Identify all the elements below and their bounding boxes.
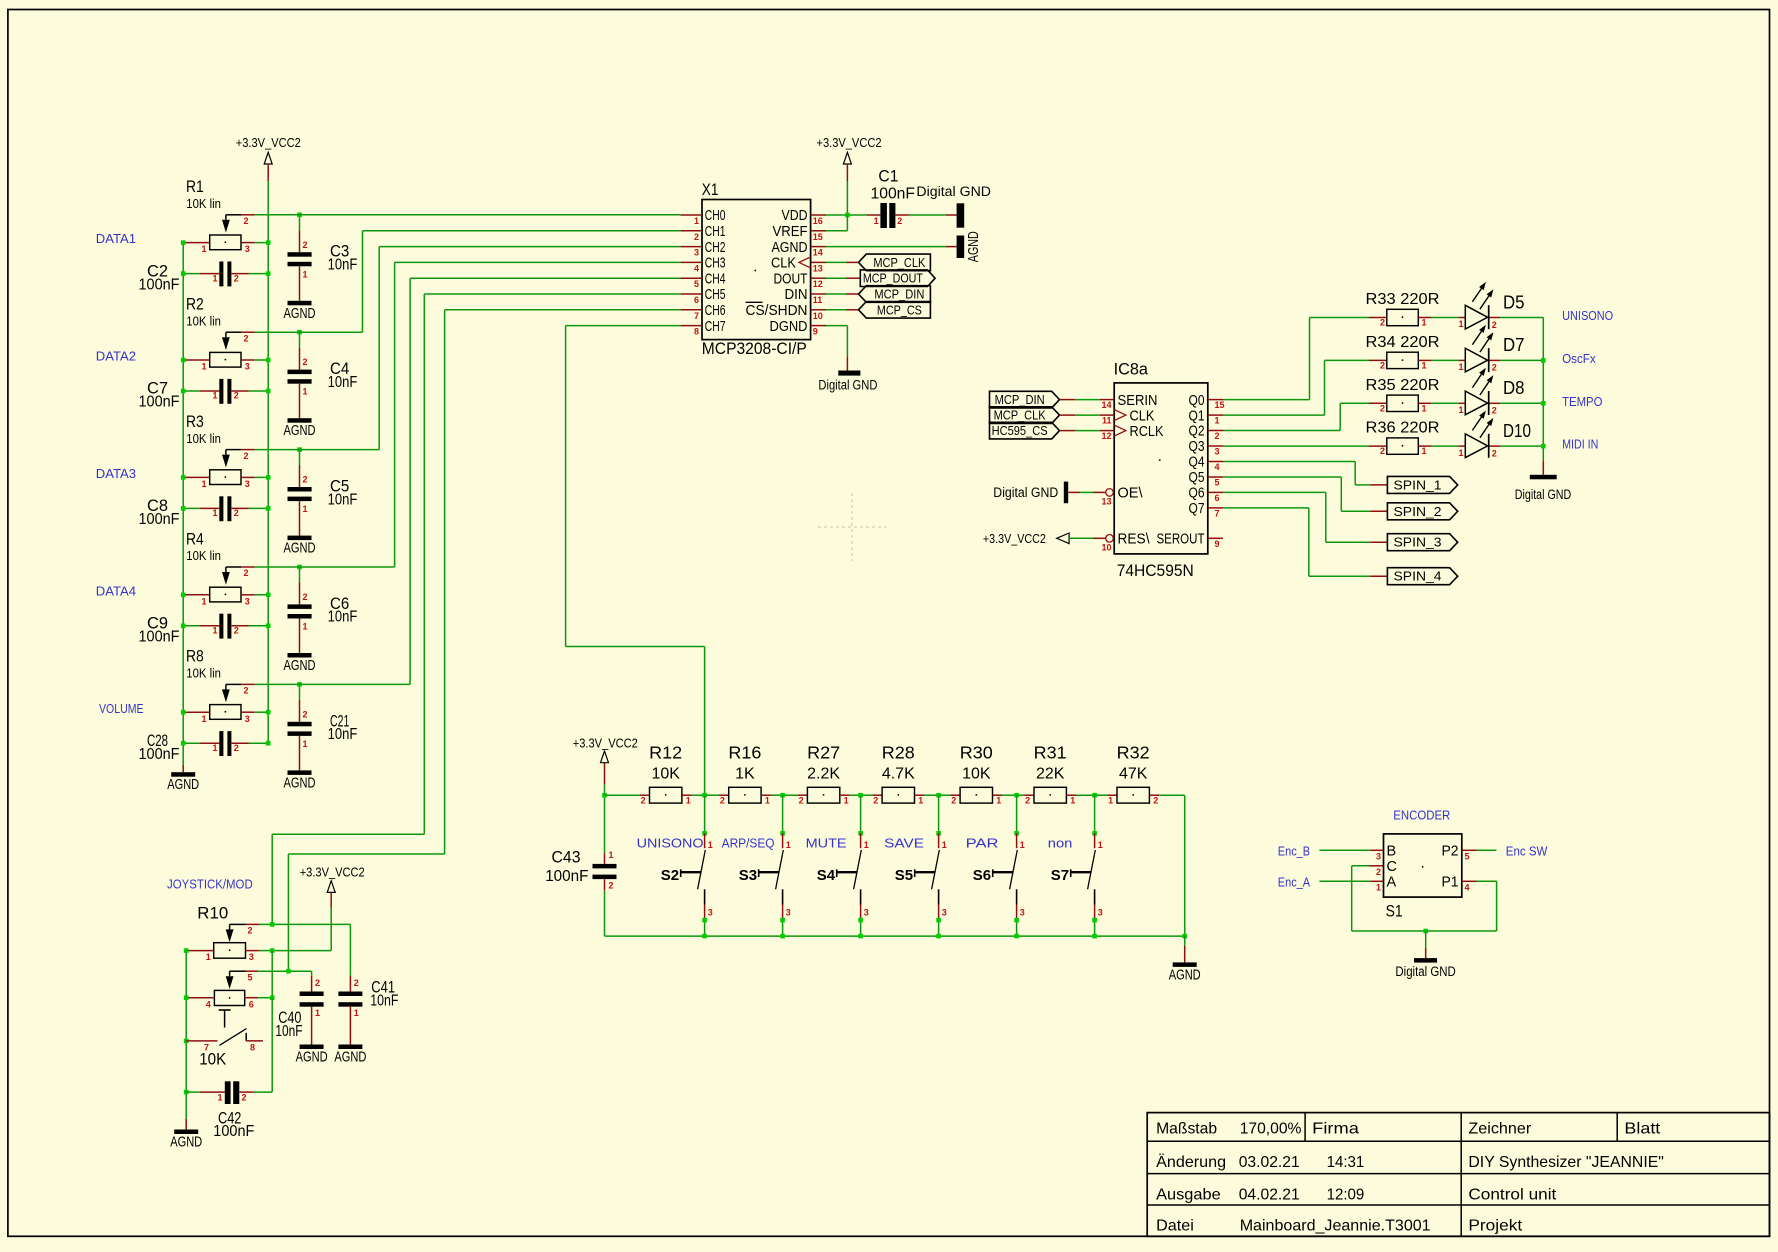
svg-text:MIDI IN: MIDI IN (1562, 437, 1598, 452)
svg-text:1: 1 (1098, 840, 1103, 850)
svg-text:2: 2 (303, 240, 308, 250)
svg-text:R8: R8 (186, 647, 204, 666)
svg-text:RCLK: RCLK (1130, 424, 1164, 440)
capacitor C8 100nF (183, 507, 200, 509)
svg-text:Zeichner: Zeichner (1468, 1121, 1531, 1138)
LED D7 (1432, 359, 1459, 361)
svg-text:MCP_CS: MCP_CS (877, 303, 922, 317)
svg-text:+3.3V_VCC2: +3.3V_VCC2 (817, 135, 882, 150)
capacitor C4 10nF (299, 332, 301, 348)
svg-text:2: 2 (303, 357, 308, 367)
svg-text:Control unit: Control unit (1468, 1187, 1556, 1204)
svg-text:3: 3 (786, 908, 791, 918)
svg-text:R28: R28 (882, 743, 915, 763)
svg-text:14: 14 (813, 248, 823, 258)
pin 8 CH7 (X1) (681, 325, 702, 327)
svg-text:SPIN_3: SPIN_3 (1394, 536, 1442, 550)
svg-text:1: 1 (354, 1008, 359, 1018)
capacitor C28 100nF (183, 742, 200, 744)
svg-text:2: 2 (234, 626, 239, 636)
wire vcc stem (pot column) (267, 164, 269, 181)
svg-text:Q4: Q4 (1189, 455, 1205, 471)
svg-text:Digital GND: Digital GND (993, 485, 1058, 500)
svg-text:3: 3 (245, 714, 250, 724)
pin 13 CLK (X1) (811, 261, 826, 263)
svg-text:1K: 1K (735, 766, 755, 783)
pin 6 Q6 (IC8a) (1208, 491, 1223, 493)
svg-text:R34 220R: R34 220R (1366, 334, 1440, 351)
svg-text:SPIN_1: SPIN_1 (1394, 478, 1442, 492)
wire pot R3 wiper stub (241, 449, 255, 451)
svg-text:1: 1 (1458, 405, 1463, 415)
svg-text:OE\: OE\ (1118, 486, 1144, 502)
svg-text:PAR: PAR (966, 836, 999, 851)
svg-text:2: 2 (799, 796, 804, 806)
svg-text:1: 1 (609, 850, 614, 860)
svg-text:A: A (1387, 875, 1397, 891)
svg-text:SPIN_2: SPIN_2 (1394, 505, 1442, 519)
wire ladder bottom rail (605, 935, 1185, 937)
svg-text:SEROUT: SEROUT (1157, 532, 1205, 548)
wire DATA4 net to ADC (255, 566, 395, 568)
svg-text:VDD: VDD (782, 208, 808, 224)
switch S5 SAVE (936, 793, 941, 798)
svg-text:Digital GND: Digital GND (818, 378, 877, 393)
svg-text:3: 3 (1376, 851, 1381, 861)
svg-text:1: 1 (1070, 796, 1075, 806)
svg-text:1: 1 (918, 796, 923, 806)
ground AGND (under C3) (288, 301, 312, 306)
svg-text:Q1: Q1 (1189, 408, 1205, 424)
svg-text:AGND: AGND (772, 240, 808, 256)
svg-text:5: 5 (248, 972, 253, 982)
power +3.3V_VCC2 (pot column) (264, 152, 272, 164)
svg-text:Digital GND: Digital GND (916, 184, 991, 199)
svg-text:2: 2 (873, 796, 878, 806)
svg-text:AGND: AGND (334, 1050, 366, 1066)
svg-text:2: 2 (303, 709, 308, 719)
svg-text:10K lin: 10K lin (186, 548, 221, 563)
svg-text:DIN: DIN (785, 287, 808, 303)
svg-text:8: 8 (250, 1043, 255, 1053)
svg-text:2: 2 (1025, 796, 1030, 806)
svg-text:1: 1 (212, 508, 217, 518)
svg-text:C1: C1 (878, 167, 898, 186)
pin 11 DIN (X1) (811, 293, 826, 295)
svg-text:2: 2 (242, 1093, 247, 1103)
svg-text:03.02.21: 03.02.21 (1239, 1154, 1300, 1171)
pin 12 RCLK (IC8a) (1100, 430, 1114, 432)
resistor R12 10K (605, 794, 640, 796)
pin 7 CH6 (X1) (681, 309, 702, 311)
wire VREF to VDD net (826, 230, 847, 232)
pin 4 P1 (S1) (1462, 880, 1477, 882)
svg-text:12:09: 12:09 (1327, 1187, 1365, 1204)
svg-text:AGND: AGND (284, 775, 316, 791)
svg-text:Q3: Q3 (1189, 439, 1205, 455)
svg-text:1: 1 (686, 796, 691, 806)
svg-text:X1: X1 (702, 180, 719, 199)
wire CH6 net (joystick pot 2 wiper) (445, 309, 681, 311)
svg-text:15: 15 (813, 232, 823, 242)
net flag MCP_DOUT (860, 270, 935, 287)
switch S4 MUTE (858, 793, 863, 798)
junction dots R4 block (181, 593, 186, 598)
svg-text:AGND: AGND (284, 423, 316, 439)
IC X1 MCP3208-CI/P (702, 200, 811, 340)
capacitor C40 10nF (311, 971, 313, 976)
resistor R35 220R (1369, 402, 1387, 404)
svg-text:11: 11 (813, 295, 823, 305)
svg-text:2: 2 (244, 451, 249, 461)
switch S7 non (1092, 793, 1097, 798)
svg-text:C43: C43 (552, 848, 581, 867)
svg-text:1: 1 (1215, 416, 1220, 426)
svg-text:2: 2 (354, 978, 359, 988)
wire VDD net (826, 214, 867, 216)
net flag MCP_CLK (859, 254, 931, 271)
svg-text:4: 4 (694, 263, 699, 273)
svg-text:3: 3 (245, 596, 250, 606)
pin 14 AGND (X1) (811, 246, 826, 248)
svg-text:3: 3 (694, 248, 699, 258)
svg-text:VOLUME: VOLUME (99, 701, 144, 716)
wire DOUT to MCP_DOUT (826, 277, 847, 279)
svg-text:R1: R1 (186, 177, 204, 196)
svg-text:3: 3 (1020, 908, 1025, 918)
wire pot R8 wiper stub (241, 683, 255, 685)
pin 9 SEROUT (IC8a) (1208, 537, 1223, 539)
svg-text:1: 1 (303, 269, 308, 279)
wire Q to SPIN_4 (1223, 507, 1309, 509)
svg-text:S1: S1 (1386, 902, 1403, 921)
pin 16 VDD (X1) (811, 214, 826, 216)
wire Enc_B (1319, 849, 1370, 851)
svg-text:CH1: CH1 (705, 224, 726, 240)
svg-text:+3.3V_VCC2: +3.3V_VCC2 (573, 736, 638, 751)
ground AGND (ladder) (1182, 934, 1187, 939)
ground Digital GND (LED rail) (1542, 460, 1544, 475)
svg-text:5: 5 (1465, 851, 1470, 861)
pin 5 P2 (S1) (1462, 849, 1477, 851)
svg-text:100nF: 100nF (139, 276, 180, 293)
LED D8 (1432, 402, 1459, 404)
svg-text:5: 5 (694, 279, 699, 289)
ground Digital GND (right of C1) (957, 203, 965, 227)
svg-text:47K: 47K (1119, 766, 1148, 783)
svg-text:2: 2 (303, 475, 308, 485)
svg-text:2: 2 (1492, 406, 1497, 416)
pin 4 Q4 (IC8a) (1208, 461, 1223, 463)
svg-text:100nF: 100nF (213, 1123, 254, 1140)
wire D8 cathode (1490, 402, 1501, 404)
wire D5 cathode (1490, 317, 1501, 319)
svg-text:1: 1 (303, 622, 308, 632)
pin 9 DGND (X1) (811, 325, 826, 327)
junction dot C6 top (297, 565, 302, 570)
wire Q to SPIN_1 (1223, 461, 1355, 463)
ground AGND (under C4) (288, 418, 312, 423)
junction dot C3 top (297, 213, 302, 218)
svg-text:AGND: AGND (284, 306, 316, 322)
svg-text:C: C (1387, 859, 1397, 875)
pin 2 Q2 (IC8a) (1208, 430, 1223, 432)
ground AGND (under C21) (288, 770, 312, 775)
svg-text:100nF: 100nF (139, 746, 180, 763)
wire Q3 to R36 (1223, 445, 1369, 447)
svg-text:100nF: 100nF (139, 629, 180, 646)
svg-text:1: 1 (864, 840, 869, 850)
pin 15 Q0 (IC8a) (1208, 399, 1223, 401)
svg-text:2: 2 (234, 273, 239, 283)
pin 15 VREF (X1) (811, 230, 826, 232)
pin 4 CH3 (X1) (681, 261, 702, 263)
svg-text:B: B (1387, 844, 1397, 860)
svg-text:Blatt: Blatt (1624, 1121, 1661, 1138)
svg-text:AGND: AGND (167, 777, 199, 793)
pin 6 CH5 (X1) (681, 293, 702, 295)
svg-text:10nF: 10nF (328, 726, 358, 743)
svg-text:ARP/SEQ: ARP/SEQ (722, 836, 775, 851)
svg-text:MUTE: MUTE (806, 836, 847, 851)
junction dots joystick rail (184, 948, 189, 953)
svg-text:Enc_A: Enc_A (1278, 874, 1311, 889)
svg-text:P2: P2 (1442, 844, 1459, 860)
svg-text:10: 10 (813, 311, 823, 321)
svg-text:D5: D5 (1503, 292, 1525, 312)
svg-text:15: 15 (1215, 400, 1225, 410)
svg-text:AGND: AGND (1169, 967, 1201, 983)
svg-text:10K lin: 10K lin (186, 666, 221, 681)
wire Q to SPIN_2 (1223, 476, 1341, 478)
svg-text:ENCODER: ENCODER (1393, 808, 1450, 823)
svg-text:6: 6 (249, 999, 254, 1009)
svg-text:13: 13 (1101, 496, 1111, 506)
svg-text:3: 3 (245, 362, 250, 372)
net flag SPIN_3 (1387, 534, 1457, 551)
svg-text:3: 3 (245, 479, 250, 489)
svg-text:2: 2 (951, 796, 956, 806)
svg-text:1: 1 (303, 504, 308, 514)
wire DGND down (826, 325, 847, 327)
svg-text:10nF: 10nF (328, 609, 358, 626)
svg-text:2: 2 (234, 743, 239, 753)
capacitor C2 100nF (183, 273, 200, 275)
svg-text:1: 1 (844, 796, 849, 806)
capacitor C21 10nF (299, 684, 301, 700)
capacitor C43 100nF (604, 795, 606, 853)
wire Q to SPIN_3 (1223, 491, 1326, 493)
svg-text:1: 1 (212, 391, 217, 401)
svg-text:1: 1 (942, 840, 947, 850)
svg-text:1: 1 (212, 273, 217, 283)
capacitor C9 100nF (183, 625, 200, 627)
pin 2 CH1 (X1) (681, 230, 702, 232)
svg-text:CLK: CLK (1130, 408, 1155, 424)
svg-text:2: 2 (234, 391, 239, 401)
wire Enc_A (1319, 880, 1370, 882)
junction dots R8 block (181, 710, 186, 715)
wire agnd rail vertical x=183 (182, 243, 184, 765)
wire VOLUME net to ADC (255, 683, 411, 685)
resistor R34 220R (1369, 359, 1387, 361)
svg-text:1: 1 (201, 479, 206, 489)
svg-text:12: 12 (813, 279, 823, 289)
svg-text:S6: S6 (973, 867, 991, 884)
pin 7 Q7 (IC8a) (1208, 507, 1223, 509)
sheet center marker (818, 526, 886, 528)
net flag MCP_CS (859, 302, 931, 319)
svg-text:non: non (1048, 836, 1073, 851)
svg-text:16: 16 (813, 216, 823, 226)
svg-text:1: 1 (874, 216, 879, 226)
svg-text:R33 220R: R33 220R (1366, 291, 1440, 308)
switch S2 UNISONO (702, 793, 707, 798)
svg-text:10: 10 (1101, 542, 1111, 552)
svg-text:9: 9 (1215, 539, 1220, 549)
svg-text:1: 1 (1458, 362, 1463, 372)
power +3.3V_VCC2 (X1) (843, 152, 851, 164)
power +3.3V_VCC2 (ladder) (601, 751, 609, 763)
wire AGND net (X1) (826, 246, 946, 248)
svg-text:1: 1 (1376, 882, 1381, 892)
junction dots R2 block (181, 358, 186, 363)
svg-text:CH5: CH5 (705, 287, 726, 303)
svg-text:R36 220R: R36 220R (1366, 420, 1440, 437)
svg-text:CH6: CH6 (705, 303, 726, 319)
svg-text:10nF: 10nF (328, 374, 358, 391)
svg-text:10nF: 10nF (328, 257, 358, 274)
svg-text:1: 1 (1422, 403, 1427, 413)
ground Digital GND (at OE) (1064, 482, 1068, 504)
svg-text:S4: S4 (817, 867, 836, 884)
switch S6 PAR (1014, 793, 1019, 798)
svg-text:Digital GND: Digital GND (1515, 487, 1572, 502)
svg-text:2: 2 (303, 592, 308, 602)
svg-text:TEMPO: TEMPO (1562, 394, 1602, 409)
svg-text:2: 2 (1380, 446, 1385, 456)
svg-text:2: 2 (1492, 320, 1497, 330)
svg-text:R2: R2 (186, 295, 204, 314)
svg-text:2: 2 (641, 796, 646, 806)
svg-text:2: 2 (1153, 796, 1158, 806)
svg-text:1: 1 (694, 216, 699, 226)
svg-text:170,00%: 170,00% (1240, 1121, 1302, 1138)
svg-text:10K lin: 10K lin (186, 313, 221, 328)
svg-text:2: 2 (1380, 360, 1385, 370)
svg-text:CS/SHDN: CS/SHDN (746, 303, 808, 319)
pin 10 RES (IC8a) with bubble (1106, 535, 1114, 543)
junction dot C21 top (297, 682, 302, 687)
svg-text:+3.3V_VCC2: +3.3V_VCC2 (236, 135, 301, 150)
svg-text:S7: S7 (1051, 867, 1069, 884)
pin 11 CLK (IC8a) (1100, 414, 1114, 416)
wire Q2 to R35 (1339, 403, 1341, 430)
wire D7 cathode (1490, 359, 1501, 361)
svg-text:MCP_DOUT: MCP_DOUT (863, 272, 923, 286)
svg-text:1: 1 (217, 1093, 222, 1103)
ground Digital GND (encoder) (1423, 929, 1428, 934)
svg-text:MCP_CLK: MCP_CLK (994, 409, 1047, 423)
svg-text:2: 2 (244, 686, 249, 696)
resistor R31 22K (1017, 794, 1025, 796)
wire pot R2 wiper stub (241, 331, 255, 333)
svg-text:DOUT: DOUT (774, 271, 808, 287)
svg-text:R12: R12 (649, 743, 682, 763)
pin 1 CH0 (X1) (681, 214, 702, 216)
svg-text:AGND: AGND (170, 1135, 202, 1151)
wire CLK to MCP_CLK (826, 261, 847, 263)
LED D5 (1432, 317, 1459, 319)
svg-text:Projekt: Projekt (1468, 1218, 1522, 1235)
svg-text:VREF: VREF (773, 224, 808, 240)
wire Q0 to R33 (1309, 318, 1311, 400)
wire CS to MCP_CS (826, 309, 847, 311)
svg-text:DATA3: DATA3 (96, 466, 136, 481)
svg-text:AGND: AGND (296, 1050, 328, 1066)
svg-text:22K: 22K (1036, 766, 1065, 783)
svg-text:4: 4 (206, 999, 211, 1009)
svg-text:DGND: DGND (770, 319, 808, 335)
resistor R36 220R (1369, 445, 1387, 447)
switch joystick button (219, 1009, 231, 1011)
svg-text:3: 3 (1215, 447, 1220, 457)
wire LED common cathode rail (1542, 318, 1544, 461)
junction dot C4 top (297, 330, 302, 335)
wire RES to vcc (1069, 537, 1093, 539)
wire pot R1 wiper stub (241, 214, 255, 216)
capacitor C42 100nF (186, 1091, 200, 1093)
wire DATA3 net to ADC (255, 449, 380, 451)
svg-text:2: 2 (897, 216, 902, 226)
svg-text:10K lin: 10K lin (186, 196, 221, 211)
svg-text:MCP3208-CI/P: MCP3208-CI/P (702, 339, 807, 358)
wire CH5 net (joystick pot 1 wiper) (424, 293, 680, 295)
svg-text:1: 1 (1108, 796, 1113, 806)
ground AGND (left rail bottom) (182, 765, 184, 772)
svg-text:4: 4 (1215, 462, 1220, 472)
svg-text:2: 2 (248, 926, 253, 936)
wire vcc rail vertical x=268 (267, 181, 269, 743)
svg-text:Ausgabe: Ausgabe (1156, 1187, 1221, 1204)
svg-text:S5: S5 (895, 867, 913, 884)
svg-text:100nF: 100nF (139, 511, 180, 528)
svg-text:2: 2 (1492, 363, 1497, 373)
svg-text:2: 2 (720, 796, 725, 806)
svg-text:1: 1 (303, 387, 308, 397)
resistor R27 2.2K (783, 794, 798, 796)
wire joystick agnd rail (185, 951, 187, 1119)
svg-text:2: 2 (244, 216, 249, 226)
svg-text:R30: R30 (960, 743, 993, 763)
svg-text:1: 1 (201, 362, 206, 372)
pin 1 Q1 (IC8a) (1208, 414, 1223, 416)
svg-text:3: 3 (942, 908, 947, 918)
svg-text:MCP_DIN: MCP_DIN (874, 288, 924, 302)
pin 3 B (S1) (1370, 849, 1383, 851)
svg-text:RES\: RES\ (1118, 532, 1151, 548)
pin 3 CH2 (X1) (681, 246, 702, 248)
svg-text:10K lin: 10K lin (186, 431, 221, 446)
svg-text:100nF: 100nF (545, 868, 588, 885)
svg-text:R27: R27 (807, 743, 840, 763)
svg-text:8: 8 (694, 327, 699, 337)
svg-text:OscFx: OscFx (1562, 351, 1596, 366)
svg-text:AGND: AGND (966, 231, 982, 262)
capacitor C6 10nF (299, 567, 301, 583)
svg-text:CH0: CH0 (705, 208, 726, 224)
junction dots R1 block (181, 240, 186, 245)
